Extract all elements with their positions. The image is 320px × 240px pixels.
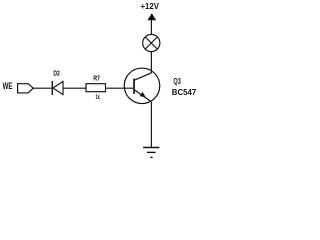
resistor R7 (box) — [86, 84, 106, 92]
wire lamp to collector of Q3 — [150, 52, 152, 73]
diode D2 (cathode bar left, triangle) — [52, 81, 63, 95]
svg-text:BC547: BC547 — [172, 87, 197, 97]
wire port WE to diode D2 — [33, 87, 52, 89]
ground symbol — [143, 148, 159, 158]
svg-text:R7: R7 — [93, 74, 100, 83]
wire resistor R7 to base of Q3 — [106, 87, 134, 89]
transistor Q3 (NPN, circle) — [124, 68, 160, 104]
transistor Q3 emitter arrow — [140, 92, 146, 97]
transistor Q3 base bar — [133, 79, 135, 94]
transistor Q3 emitter line — [134, 89, 152, 102]
svg-text:1k: 1k — [96, 94, 101, 101]
svg-text:+12V: +12V — [141, 2, 160, 11]
input port WE (tag symbol) — [18, 84, 34, 93]
svg-text:D2: D2 — [53, 69, 59, 78]
wire supply arrow to lamp — [150, 20, 152, 35]
wire diode D2 to resistor R7 — [64, 87, 87, 89]
svg-text:Q3: Q3 — [173, 76, 181, 86]
transistor Q3 collector line — [134, 73, 151, 80]
lamp (circle with X) — [143, 34, 160, 51]
wire emitter of Q3 to ground — [150, 102, 152, 148]
power +12V arrow symbol — [147, 13, 156, 20]
svg-text:WE: WE — [3, 81, 13, 91]
